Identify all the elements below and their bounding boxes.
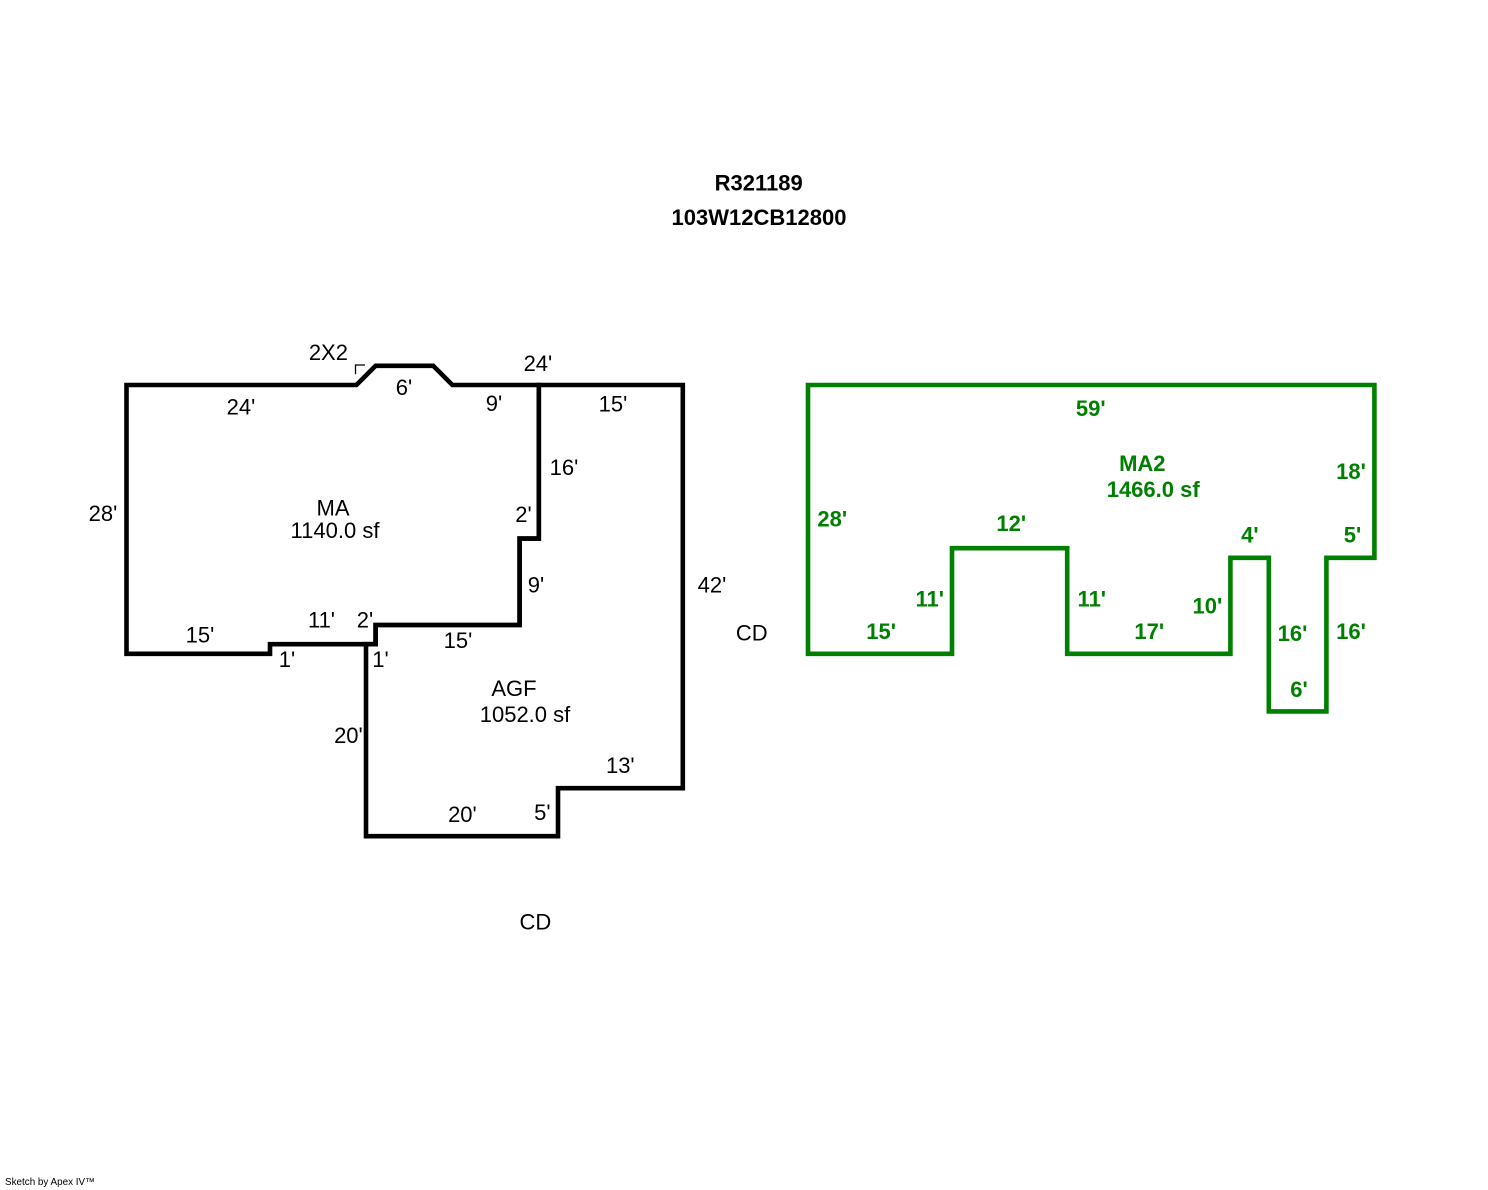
- svg-text:15': 15': [866, 619, 896, 644]
- svg-text:16': 16': [550, 455, 579, 480]
- svg-text:16': 16': [1336, 619, 1366, 644]
- svg-text:6': 6': [396, 375, 412, 400]
- svg-text:11': 11': [915, 587, 944, 612]
- svg-text:103W12CB12800: 103W12CB12800: [672, 205, 847, 230]
- svg-text:CD: CD: [736, 621, 768, 646]
- svg-text:2': 2': [357, 608, 373, 633]
- svg-text:R321189: R321189: [715, 170, 803, 195]
- svg-text:24': 24': [227, 395, 256, 420]
- svg-text:28': 28': [89, 501, 118, 526]
- svg-text:9': 9': [486, 391, 502, 416]
- svg-text:1140.0 sf: 1140.0 sf: [291, 518, 381, 543]
- svg-text:15': 15': [599, 392, 628, 417]
- svg-text:4': 4': [1241, 523, 1258, 548]
- svg-text:6': 6': [1290, 677, 1307, 702]
- svg-text:2': 2': [515, 502, 531, 527]
- svg-text:MA: MA: [317, 496, 350, 521]
- svg-text:1': 1': [279, 647, 295, 672]
- svg-text:5': 5': [1344, 523, 1361, 548]
- svg-text:Sketch by Apex IV™: Sketch by Apex IV™: [5, 1177, 95, 1188]
- svg-text:CD: CD: [520, 910, 552, 935]
- svg-text:24': 24': [524, 351, 553, 376]
- svg-text:AGF: AGF: [491, 676, 536, 701]
- svg-text:2X2: 2X2: [309, 340, 348, 365]
- svg-text:42': 42': [698, 573, 727, 598]
- svg-text:15': 15': [444, 628, 473, 653]
- svg-text:MA2: MA2: [1119, 451, 1165, 476]
- svg-text:28': 28': [817, 507, 847, 532]
- svg-text:1': 1': [372, 647, 388, 672]
- svg-text:10': 10': [1193, 594, 1223, 619]
- svg-text:12': 12': [996, 511, 1026, 536]
- svg-text:1466.0 sf: 1466.0 sf: [1107, 477, 1201, 502]
- svg-text:11': 11': [308, 608, 335, 633]
- svg-text:18': 18': [1336, 459, 1366, 484]
- svg-text:1052.0 sf: 1052.0 sf: [480, 702, 571, 727]
- svg-text:59': 59': [1076, 396, 1106, 421]
- svg-text:20': 20': [448, 802, 477, 827]
- svg-text:5': 5': [534, 800, 550, 825]
- svg-text:9': 9': [528, 573, 544, 598]
- svg-text:16': 16': [1278, 621, 1308, 646]
- svg-text:13': 13': [606, 753, 635, 778]
- svg-text:11': 11': [1078, 587, 1107, 612]
- svg-text:17': 17': [1134, 619, 1164, 644]
- svg-text:20': 20': [334, 723, 363, 748]
- svg-text:15': 15': [186, 623, 215, 648]
